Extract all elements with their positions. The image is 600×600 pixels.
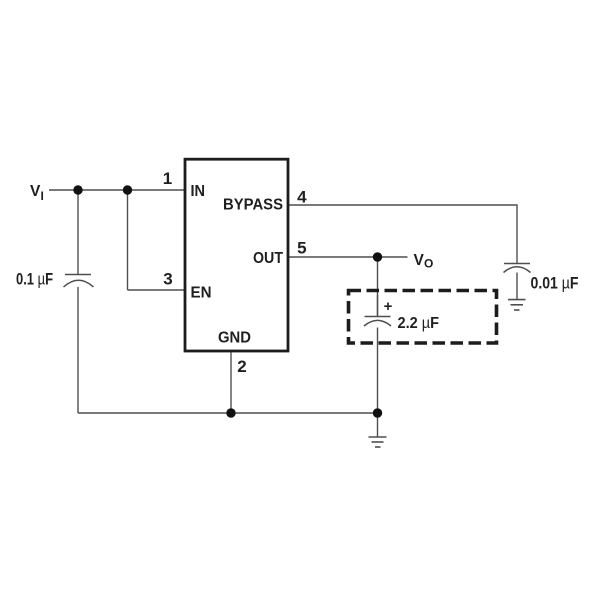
svg-text:O: O — [424, 257, 433, 271]
svg-text:4: 4 — [297, 188, 307, 207]
svg-text:I: I — [41, 189, 44, 203]
svg-text:OUT: OUT — [253, 250, 283, 267]
svg-text:GND: GND — [218, 329, 251, 346]
svg-text:0.1 µF: 0.1 µF — [16, 271, 53, 289]
svg-text:0.01 µF: 0.01 µF — [531, 275, 579, 293]
svg-text:IN: IN — [191, 183, 206, 200]
svg-text:V: V — [414, 252, 425, 269]
svg-text:EN: EN — [191, 285, 212, 302]
svg-text:2: 2 — [237, 357, 246, 376]
svg-text:3: 3 — [163, 270, 172, 289]
svg-text:+: + — [384, 298, 393, 315]
svg-text:V: V — [30, 183, 41, 200]
svg-text:5: 5 — [297, 239, 306, 258]
svg-text:2.2 µF: 2.2 µF — [398, 315, 440, 332]
svg-text:BYPASS: BYPASS — [223, 197, 283, 214]
svg-text:1: 1 — [163, 169, 172, 188]
